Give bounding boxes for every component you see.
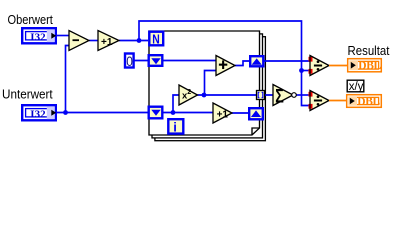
wire add output to upper right tunnel	[235, 61, 252, 66]
svg-text:+1: +1	[217, 109, 229, 120]
wire n rail into upper divide	[302, 70, 311, 72]
label x/y boxed	[347, 80, 364, 93]
wire upper right tunnel to upper divide	[265, 60, 311, 62]
wire +1 to N terminal	[119, 40, 148, 42]
wire branch up to x squared	[173, 95, 179, 113]
svg-text:x/y: x/y	[349, 81, 364, 93]
wire upper shift register to add	[164, 60, 217, 62]
svg-text:Unterwert: Unterwert	[2, 87, 53, 102]
for-loop frame 2 (middle)	[152, 34, 263, 138]
indexing tunnel []	[257, 91, 265, 100]
increment +1 inner function	[213, 103, 232, 123]
wire n rail over loop to divides	[139, 21, 302, 71]
shift register right upper	[250, 56, 263, 66]
svg-text:DBL: DBL	[357, 96, 380, 108]
iteration terminal i	[168, 119, 183, 134]
square function x2	[179, 85, 198, 105]
svg-text:Σ: Σ	[275, 85, 284, 106]
svg-text:i: i	[173, 120, 177, 135]
wire lower divide to x/y indicator (orange DBL)	[329, 100, 346, 102]
svg-text:N: N	[152, 33, 160, 47]
wire subtract to +1	[89, 40, 98, 42]
svg-text:2: 2	[187, 89, 191, 96]
add function	[216, 56, 235, 76]
wire Oberwert to subtract	[57, 35, 69, 37]
shift register left lower	[149, 107, 163, 119]
node junction dot x branch	[171, 110, 176, 115]
svg-text:I32: I32	[30, 31, 46, 43]
wire n rail down into lower divide	[302, 71, 311, 106]
for-loop frame 3 (back)	[155, 37, 266, 141]
indicator x/y DBL	[347, 95, 382, 108]
wire Unterwert branch up to subtract	[66, 46, 70, 113]
wire sigma to lower divide	[296, 94, 310, 96]
constant 0	[125, 53, 134, 69]
node junction dot Unterwert branch	[63, 110, 68, 115]
svg-text:DBL: DBL	[358, 60, 381, 72]
sigma add array elements	[273, 85, 296, 107]
shift register left upper	[149, 55, 163, 66]
svg-text:Resultat: Resultat	[348, 43, 390, 58]
control Unterwert I32	[22, 105, 56, 120]
svg-text:+1: +1	[101, 37, 113, 48]
control Oberwert I32	[22, 28, 56, 43]
wire +1 inner to lower right tunnel	[232, 112, 252, 114]
shift register right lower	[249, 108, 263, 119]
wire lower shift register to +1 inner	[164, 112, 214, 114]
node junction dot x squared output	[202, 93, 207, 98]
divide lower	[309, 91, 330, 111]
wire upper divide to Resultat indicator (orange DBL)	[329, 65, 347, 67]
wire branch up to add lower input	[205, 71, 217, 96]
wire x squared output to sigma	[198, 94, 274, 96]
increment +1 function	[98, 31, 119, 51]
divide upper	[309, 56, 330, 76]
indicator Resultat DBL	[348, 59, 382, 72]
svg-text:Oberwert: Oberwert	[8, 12, 54, 27]
node junction dot n rail	[299, 68, 304, 73]
wire 0 constant to upper shift register	[134, 60, 152, 62]
fold corner lines	[252, 128, 260, 135]
count terminal N	[149, 32, 163, 47]
node junction dot n branch	[137, 38, 142, 43]
wire Unterwert main run to loop shift register	[57, 112, 152, 114]
svg-text:0: 0	[126, 53, 133, 69]
svg-text:I32: I32	[30, 108, 46, 120]
for-loop frame 1 (front) with folded corner	[149, 31, 260, 135]
subtract function	[69, 31, 89, 51]
